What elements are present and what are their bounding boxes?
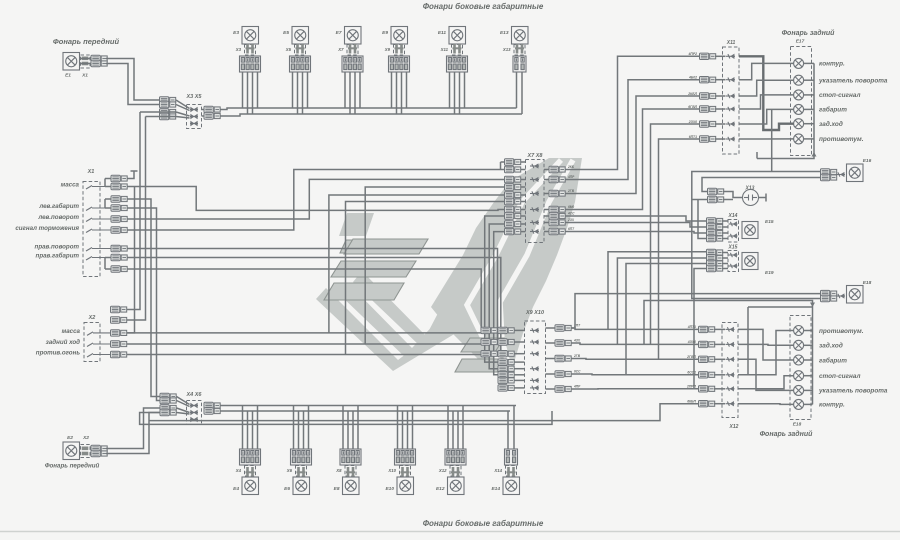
wire: E17 chassis rail [757, 63, 814, 158]
svg-text:Х5: Х5 [285, 47, 292, 52]
lamp Е5 terminal block [290, 56, 311, 72]
wire: X11 row1 to reverse bulb [739, 56, 794, 130]
wire: bulb to chassis rail [804, 123, 814, 125]
terminals right of X5 [204, 106, 220, 112]
side marker lamp Е12 [448, 477, 465, 495]
lamp E16 mating mark [836, 172, 845, 176]
wire: X15 feed 3 [626, 264, 707, 375]
wire: bulb to chassis rail [804, 79, 814, 81]
wire: X8 out5 to X14 row1 [565, 216, 707, 221]
svg-text:Х1: Х1 [81, 73, 88, 79]
svg-text:Х12: Х12 [438, 468, 447, 473]
wire: feed X7 row6 [346, 202, 505, 355]
svg-text:Фонари боковые габаритные: Фонари боковые габаритные [423, 519, 544, 528]
X11 terminal stubs [715, 55, 726, 57]
wire: feed X7 row4 [365, 187, 504, 344]
svg-text:Е6: Е6 [284, 486, 290, 492]
lamp E18 [847, 286, 864, 304]
svg-text:Х15: Х15 [728, 245, 738, 251]
svg-text:Фонарь задний: Фонарь задний [760, 430, 814, 438]
wire: X12 row3 to turn bulb [738, 359, 794, 390]
lamp E2 [63, 442, 80, 460]
wire: X2 ground to X9 [127, 330, 499, 333]
wire: bulb to chassis rail [804, 138, 814, 140]
wire: X1 left marker down to X4 [127, 199, 160, 397]
connector X14 dashed body [728, 220, 739, 243]
X15 stubs [722, 252, 728, 254]
rear lamp E17 bulb: габарит [794, 104, 804, 114]
side marker lamp Е8 [343, 477, 360, 495]
X15 mating marks [729, 253, 738, 257]
wire: lamp E2 pin2 up to X4 [106, 413, 160, 454]
svg-text:задний ход: задний ход [46, 339, 81, 346]
svg-text:2ГВП: 2ГВП [686, 355, 696, 359]
svg-text:Е18: Е18 [793, 422, 802, 428]
rear lamp bottom bulb: контур. [794, 399, 804, 409]
X2 terminals [111, 306, 127, 312]
connector X12 dashed body [722, 323, 738, 418]
svg-text:габарит: габарит [819, 356, 847, 364]
wire: aux run below buses [140, 411, 552, 424]
wire: bulb to chassis rail [804, 389, 813, 391]
svg-text:6ПТ1: 6ПТ1 [689, 135, 697, 139]
wire: bottom marker bus 2 [220, 410, 510, 412]
wire: X7 row10 to X9 link [494, 232, 505, 375]
wire: X8 out2 to X11 row2 [565, 80, 700, 180]
wire: bulb to chassis rail [804, 403, 813, 405]
svg-text:4ПР: 4ПР [573, 385, 581, 389]
wire: lamp E1 pin2 to X3 [80, 63, 92, 65]
wires of lamp Е11 to marker buses [449, 72, 451, 108]
side marker lamp Е7 [345, 27, 362, 45]
side marker lamp Е13 [512, 27, 529, 45]
svg-text:Е18: Е18 [863, 280, 872, 286]
wire: bottom chassis rail [644, 301, 813, 405]
rear lamp E17 bulb: контур. [794, 58, 804, 68]
svg-text:противотум.: противотум. [819, 328, 864, 335]
svg-text:Е16: Е16 [863, 158, 872, 164]
X3 X5 mating pins [190, 108, 198, 111]
svg-text:Х2: Х2 [88, 315, 96, 321]
lamp E16 [847, 164, 864, 182]
svg-text:2ПРП: 2ПРП [686, 385, 697, 389]
wire: X11 row6 to fog bulb [739, 138, 794, 140]
svg-text:2ГВ: 2ГВ [573, 354, 581, 358]
X2 pin stubs [87, 332, 111, 336]
svg-text:2КБЛ: 2КБЛ [687, 92, 697, 96]
side marker lamp Е11 [449, 27, 466, 45]
X14 mating marks [729, 222, 738, 226]
svg-text:лев.поворот: лев.поворот [37, 214, 79, 221]
svg-text:Е8: Е8 [334, 486, 340, 492]
wire: X3 to X2 link 2 [146, 116, 177, 118]
wire: X10 to X12 row5 [571, 388, 699, 390]
wire: chassis run to X12 [149, 404, 699, 421]
wire: marker rail down right side [692, 194, 821, 299]
lamp Е7 plug [347, 45, 358, 56]
svg-text:сигнал торможения: сигнал торможения [15, 225, 79, 232]
svg-text:4Б02: 4Б02 [688, 76, 697, 80]
svg-text:Е4: Е4 [233, 486, 239, 492]
wire: X13 tail [723, 192, 743, 198]
rear lamp E17 bulb: противотум. [794, 134, 804, 144]
wire: X7 row8 to X9 link [485, 216, 505, 362]
lamp Е13 terminal block [513, 56, 526, 72]
lamp Е6 plug [296, 466, 307, 477]
svg-text:6ГВЛ: 6ГВЛ [688, 105, 697, 109]
wire: bottom marker bus 1 [220, 405, 516, 407]
svg-text:габарит: габарит [819, 106, 847, 114]
svg-text:Х7 Х8: Х7 Х8 [527, 153, 544, 159]
wire: bulb to chassis rail [804, 62, 814, 64]
svg-text:Е7: Е7 [336, 30, 342, 36]
lamp Е9 plug [394, 45, 405, 56]
X7 X8 mating marks [530, 164, 539, 168]
X8 right terminals [549, 166, 565, 172]
lamp Е11 plug [452, 45, 463, 56]
svg-text:Х9: Х9 [384, 47, 391, 52]
svg-text:Е14: Е14 [491, 486, 500, 492]
wire: X1 row1 chassis tick [127, 171, 134, 179]
svg-text:Х10: Х10 [387, 468, 396, 473]
side marker lamp Е8 terminal block [340, 449, 361, 465]
rear lamp bottom dashed body [790, 316, 811, 420]
wire: marker bulb tap down to E16 [771, 109, 773, 171]
svg-text:4ЗХ: 4ЗХ [573, 339, 581, 343]
svg-text:стоп-сигнал: стоп-сигнал [819, 92, 860, 99]
wire: X12 row4 to fog bulb [738, 331, 794, 375]
wire: X2 fog to X9 [127, 353, 507, 356]
svg-text:против.огонь: против.огонь [36, 350, 81, 357]
svg-text:Е13: Е13 [500, 30, 509, 36]
svg-text:прав.габарит: прав.габарит [36, 253, 80, 260]
X4 X6 mating pins [190, 404, 198, 407]
svg-text:Х2: Х2 [82, 435, 89, 441]
svg-text:Х11: Х11 [440, 47, 449, 52]
X10 right terminals [555, 325, 571, 331]
svg-text:4ПР: 4ПР [567, 175, 575, 179]
wire: X8 out1 to X11 row1 [565, 56, 700, 169]
wire: X8 out4 to X11 row4 [565, 109, 700, 210]
X9 X10 mating marks [530, 328, 539, 332]
wire: rear lamp E18 feed [571, 294, 821, 328]
svg-text:6СС1: 6СС1 [687, 371, 696, 375]
lamp Е12 plug [450, 466, 461, 477]
lamp E18 mating mark [836, 294, 845, 298]
lamp E19 [742, 253, 758, 270]
wire: X3 to X2 link 1 [140, 111, 176, 113]
wires of lamp Е12 to bottom buses [447, 406, 449, 450]
svg-text:2ЗХ: 2ЗХ [567, 218, 575, 222]
svg-text:контур.: контур. [819, 61, 845, 68]
wire: X8 out3 to X11 row3 [565, 96, 700, 194]
svg-text:Фонарь передний: Фонарь передний [53, 37, 120, 46]
X15 terminals [707, 249, 723, 255]
wire: X11 row3 to turn bulb [739, 80, 794, 96]
wires of lamp Е7 to marker buses [344, 72, 346, 108]
lamp Е3 terminal block [240, 56, 261, 72]
wires of lamp Е4 to bottom buses [242, 406, 244, 450]
X9 X10 internal stubs [514, 329, 525, 331]
side marker lamp Е10 terminal block [395, 449, 416, 465]
terminals right of X6 [204, 402, 220, 408]
svg-text:Х6: Х6 [286, 468, 293, 473]
wire: bulb to chassis rail [804, 344, 813, 346]
wire: X7 rows1-2 bracket [500, 162, 502, 170]
terminals left of X3 [160, 97, 176, 103]
wire: top marker bus 1 [220, 108, 517, 110]
svg-text:2ЗХ0: 2ЗХ0 [688, 120, 697, 124]
wire: X11 row6 feed [659, 139, 700, 359]
wires of lamp Е10 to bottom buses [397, 406, 399, 450]
wire: X11 row2 to contour bulb [739, 63, 794, 79]
side marker lamp Е14 [503, 477, 520, 495]
svg-text:Х4 Х6: Х4 Х6 [186, 392, 203, 398]
svg-text:Х8: Х8 [335, 468, 342, 473]
connector X9 X10 dashed body [525, 321, 546, 394]
wire: E16 second pin via X13 [702, 178, 821, 192]
svg-text:Х3: Х3 [235, 47, 242, 52]
lamp Е14 plug [506, 466, 517, 477]
svg-text:Фонарь задний: Фонарь задний [782, 29, 836, 37]
lamp Е11 terminal block [447, 56, 468, 72]
svg-text:Х7: Х7 [337, 47, 344, 52]
svg-text:Х1: Х1 [87, 169, 95, 175]
wire: X14 row4 feed [698, 200, 707, 239]
svg-text:противотум.: противотум. [819, 136, 864, 143]
X7 left terminals [505, 159, 521, 165]
wire: X15 feed 1 [608, 252, 707, 330]
wire: X11 row4 to stop bulb [739, 95, 794, 109]
svg-text:Е9: Е9 [382, 30, 388, 36]
wire: marker rail to E16 [692, 172, 821, 194]
connector X13 terminals [708, 188, 724, 194]
svg-text:4ЗХ0: 4ЗХ0 [687, 340, 696, 344]
terminals of lamp E1 [91, 55, 107, 61]
wire: X8 out7 to X14 row3 [565, 232, 707, 234]
wires of lamp Е14 to bottom buses [507, 411, 509, 449]
svg-text:зад.ход: зад.ход [819, 342, 843, 350]
wire: X10 to X12 row4 [571, 373, 699, 376]
terminals left of X4 [160, 393, 176, 399]
wire: X2 reverse to X9 [127, 342, 503, 344]
svg-text:Е11: Е11 [438, 30, 447, 36]
wire: X1 turn signal to X7 row3 [127, 179, 505, 219]
drawing frame bottom edge [0, 531, 900, 533]
lamp Е7 terminal block [342, 56, 363, 72]
wire: X11 row5 feed [651, 124, 700, 344]
svg-text:Е5: Е5 [283, 30, 289, 36]
rear lamp E17 dashed body [791, 47, 812, 156]
wire: X1 ground to X7 row7 [127, 187, 505, 211]
X9 extra terminals [481, 327, 497, 333]
X12 mating marks [726, 327, 735, 331]
rear lamp E17 bulb: стоп-сигнал [794, 90, 804, 100]
connector X11 dashed body [723, 47, 740, 154]
wire: bulb to chassis rail [804, 359, 813, 361]
rear lamp E17 bulb: указатель поворота [794, 75, 804, 85]
wire: X8 out6 to X14 row2 [565, 223, 707, 228]
svg-text:2ГВ: 2ГВ [567, 189, 575, 193]
svg-text:Е12: Е12 [436, 486, 445, 492]
svg-text:Х13: Х13 [502, 47, 511, 52]
X9 left terminals [498, 327, 514, 333]
wire: X1 right marker to X9 [127, 258, 501, 354]
connector X13 round body [743, 190, 759, 206]
connector X1 plug of lamp E1 [81, 55, 91, 68]
svg-text:6КБП: 6КБП [687, 400, 696, 404]
connector X15 dashed body [728, 251, 739, 272]
svg-text:Фонарь передний: Фонарь передний [45, 463, 100, 470]
wire: X3 row3 converge [176, 112, 190, 116]
wire: X10 to X12 row3 [571, 358, 699, 361]
wires of lamp Е13 to marker buses [516, 72, 518, 108]
wires of lamp Е8 to bottom buses [342, 406, 344, 450]
wire: top marker bus 2 [220, 114, 522, 116]
decorative watermark emblem (not labelled further) [316, 158, 582, 372]
svg-text:2КБ: 2КБ [567, 165, 575, 169]
svg-text:4ПТ1: 4ПТ1 [687, 325, 696, 329]
svg-text:Е19: Е19 [765, 270, 774, 276]
wire: X12 row2 to reverse bulb [738, 343, 794, 346]
svg-text:Е3: Е3 [233, 30, 239, 36]
svg-text:Х14: Х14 [728, 213, 738, 219]
wire: chassis stub [748, 306, 813, 308]
connector X7 X8 dashed body [526, 160, 545, 243]
lamp E1 [63, 53, 80, 71]
svg-text:Е2: Е2 [67, 435, 73, 441]
svg-text:Х9 Х10: Х9 Х10 [525, 310, 544, 316]
wires of lamp Е9 to marker buses [391, 72, 393, 108]
wire: X12 row5 to stop bulb [738, 376, 794, 389]
svg-text:прав.поворот: прав.поворот [35, 244, 80, 251]
lamp Е10 plug [400, 466, 411, 477]
lamp Е5 plug [295, 45, 306, 56]
rear lamp bottom bulb: противотум. [794, 326, 804, 336]
lamp Е3 plug [245, 45, 256, 56]
wire: bulb to chassis rail [804, 330, 813, 332]
side marker lamp Е6 [293, 477, 310, 495]
X14 stubs [722, 220, 728, 222]
svg-text:6ПТ: 6ПТ [568, 227, 575, 231]
side marker lamp Е5 [292, 27, 309, 45]
wire: X4 row converge lines [177, 397, 190, 405]
svg-text:масса: масса [62, 328, 81, 335]
connector X4 X6 dashed body [187, 401, 202, 425]
svg-text:6М0: 6М0 [568, 205, 574, 209]
wire: X1 brake signal to X7 row2 [127, 170, 505, 231]
svg-text:Х14: Х14 [493, 468, 502, 473]
svg-text:Е1: Е1 [65, 73, 71, 79]
wires of lamp Е3 to marker buses [242, 72, 244, 108]
svg-text:Х12: Х12 [729, 424, 739, 430]
terminals of lamp E2 [91, 445, 107, 451]
svg-text:контур.: контур. [819, 402, 845, 409]
side marker lamp Е3 [242, 27, 259, 45]
wire: bulb to chassis rail [804, 375, 813, 377]
svg-text:Х4: Х4 [235, 468, 242, 473]
svg-text:стоп-сигнал: стоп-сигнал [819, 373, 860, 380]
wire: X3 row4 converge [176, 117, 190, 119]
wire: X1 ground to X2 ground link [127, 187, 135, 333]
X11 terminals [700, 53, 716, 59]
svg-text:указатель поворота: указатель поворота [818, 78, 888, 85]
wire: lamp E1 pin1 to X3 [80, 58, 92, 60]
wire: lamp E2 pin1 up to X4 [106, 408, 160, 449]
svg-text:4СС: 4СС [567, 212, 575, 216]
lamp E15 [742, 222, 758, 239]
side marker lamp Е6 terminal block [291, 449, 312, 465]
svg-text:Фонари боковые габаритные: Фонари боковые габаритные [423, 2, 544, 11]
svg-text:4ПР2: 4ПР2 [688, 52, 698, 56]
wire: X10 to X12 row2 [571, 343, 699, 344]
wire: X3 row1 converge [176, 100, 190, 109]
rear lamp bottom bulb: зад.ход [794, 340, 804, 350]
svg-text:Е17: Е17 [796, 39, 805, 45]
wire: X12 row6 to contour bulb [738, 403, 794, 406]
wire: X12 row1 to marker bulb [738, 329, 794, 360]
X12 terminals [699, 326, 715, 332]
svg-text:Х11: Х11 [726, 40, 736, 46]
svg-text:лев.габарит: лев.габарит [38, 203, 79, 210]
rear lamp bottom bulb: габарит [794, 355, 804, 365]
wire: X11 row5 to marker bulb [739, 109, 794, 124]
connector X1 dashed body [83, 182, 100, 277]
svg-text:2ПТ: 2ПТ [573, 324, 581, 328]
side marker lamp Е4 [242, 477, 259, 495]
wire: ground branch to X7 row5 [329, 195, 505, 333]
side marker lamp Е9 [391, 27, 408, 45]
wire: X7 row9 to X9 link [489, 224, 504, 369]
svg-text:Е15: Е15 [765, 219, 774, 225]
X12 terminal stubs [714, 328, 725, 330]
rear lamp E17 bulb: зад.ход [794, 119, 804, 129]
lamp E18 terminals [821, 290, 837, 296]
wire: bulb to chassis rail [804, 108, 814, 110]
wire: X10 to X12 row1 [571, 328, 699, 329]
svg-text:6СС: 6СС [574, 370, 581, 374]
svg-text:масса: масса [61, 182, 80, 189]
X7 X8 internal stubs [521, 161, 526, 163]
svg-text:Х3 Х5: Х3 Х5 [186, 94, 203, 100]
connector X2 plug of lamp E2 [81, 445, 91, 458]
wires of lamp Е5 to marker buses [292, 72, 294, 108]
wire: X1 right turn to X9 [127, 249, 498, 343]
wire: X3 row2 converge [176, 105, 190, 111]
side marker lamp Е14 terminal block [505, 449, 518, 465]
wire: rail tap to X13 [692, 199, 708, 201]
lamp Е13 plug [514, 45, 525, 56]
side marker lamp Е12 terminal block [445, 449, 466, 465]
connector X2 dashed body [84, 323, 100, 362]
wire: X1 left turn down to X4 [127, 208, 160, 401]
side marker lamp Е4 terminal block [240, 449, 261, 465]
wire: X15 feed 2 [617, 258, 706, 344]
side marker lamp Е10 [397, 477, 414, 495]
wire: X15 feed 4 [694, 269, 707, 389]
rear lamp bottom bulb: указатель поворота [794, 385, 804, 395]
lamp Е4 plug [245, 466, 256, 477]
X14 terminals [707, 218, 723, 224]
svg-text:Е10: Е10 [385, 486, 394, 492]
rear lamp bottom bulb: стоп-сигнал [794, 371, 804, 381]
wire: bulb to chassis rail [804, 94, 814, 96]
X1 bracket pairs [104, 179, 106, 187]
lamp Е8 plug [345, 466, 356, 477]
X1 terminals [111, 175, 127, 181]
svg-text:зад.ход: зад.ход [819, 120, 843, 128]
lamp Е9 terminal block [389, 56, 410, 72]
